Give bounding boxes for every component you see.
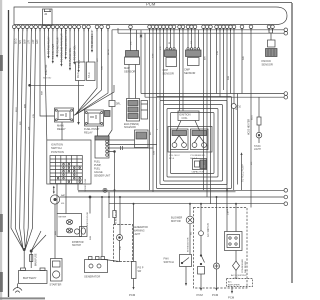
svg-text:PCM: PCM <box>197 293 204 297</box>
svg-text:SENSOR: SENSOR <box>184 71 195 75</box>
right page border <box>291 3 293 283</box>
condenser fan relay K3 <box>225 190 243 250</box>
wire color labels right <box>153 40 254 215</box>
svg-text:L/W: L/W <box>217 50 219 55</box>
svg-text:CONDENSER: CONDENSER <box>242 259 244 273</box>
ignition coil label box <box>177 111 200 131</box>
wire key to starter <box>54 204 56 258</box>
wire pin220 drop <box>219 28 221 97</box>
svg-text:SENDER UNIT: SENDER UNIT <box>94 175 111 178</box>
wire pin251 drop <box>250 28 252 208</box>
wire pins to DLC <box>84 28 89 62</box>
generator G1 <box>84 257 108 279</box>
EGR solenoid stack <box>124 99 140 130</box>
svg-text:B/LG: B/LG <box>16 107 18 112</box>
svg-text:DRL: DRL <box>116 104 121 106</box>
svg-text:SWITCH: SWITCH <box>72 245 81 247</box>
wire y148 with capacitor marks <box>108 146 153 150</box>
node next-page circles lower <box>284 189 288 206</box>
svg-text:SIG O/D: SIG O/D <box>43 78 52 80</box>
svg-text:P/S P: P/S P <box>138 268 144 270</box>
wire DRL down to fuel connector <box>108 107 112 137</box>
svg-text:BLOWER: BLOWER <box>171 216 182 220</box>
svg-text:LIGHT: LIGHT <box>134 234 141 236</box>
svg-text:MONITOR: MONITOR <box>46 64 48 75</box>
wire pin227 drop <box>226 28 228 190</box>
meter fuse wire <box>87 196 91 226</box>
splice mark x141 <box>140 30 142 37</box>
svg-text:Y/B: Y/B <box>120 246 122 250</box>
svg-text:A/C: A/C <box>228 280 232 283</box>
svg-text:METER FUSE: METER FUSE <box>87 211 89 226</box>
battery BT1 <box>19 268 48 284</box>
svg-text:L/G: L/G <box>131 41 133 45</box>
svg-text:PCM: PCM <box>228 296 235 300</box>
wire y140 to boost sensor <box>108 139 134 141</box>
wire pin223 drop <box>223 28 225 90</box>
wire pin153 long drop <box>152 28 154 192</box>
svg-text:STARTER: STARTER <box>50 283 62 287</box>
svg-text:TO COOLING FAN RELAY: TO COOLING FAN RELAY <box>61 32 64 62</box>
svg-text:W/ RESISTOR: W/ RESISTOR <box>187 237 189 252</box>
svg-text:SWITCH: SWITCH <box>51 146 62 150</box>
wire bus y191.8 <box>78 191 236 193</box>
svg-text:TO DRL UNIT: TO DRL UNIT <box>52 43 55 59</box>
wire route nest 5 <box>171 113 215 174</box>
CMP sensor <box>184 48 201 75</box>
ignition switch table <box>50 156 82 184</box>
svg-text:GY/R: GY/R <box>207 144 209 150</box>
svg-text:IG KEY FUSE: IG KEY FUSE <box>116 210 118 224</box>
svg-text:KNOCK: KNOCK <box>262 59 272 63</box>
wire pin149 long drop <box>149 28 151 190</box>
svg-text:SENSOR: SENSOR <box>262 63 273 67</box>
fan switch S1 <box>164 255 192 267</box>
svg-text:INHIBITOR: INHIBITOR <box>72 242 84 244</box>
wire pin41 to main relay <box>40 28 55 116</box>
svg-text:B/R: B/R <box>205 56 207 60</box>
splice circle bus y190 <box>103 188 107 192</box>
svg-text:BR/W: BR/W <box>108 48 110 55</box>
wires MAP to EGR stack <box>129 65 136 99</box>
svg-text:TO MIL: TO MIL <box>78 59 81 68</box>
svg-text:B/W: B/W <box>23 39 26 44</box>
ignition coil T1 <box>168 127 212 153</box>
wire fan into main relay <box>74 28 115 115</box>
svg-text:TO CRUISE UNIT: TO CRUISE UNIT <box>92 29 94 48</box>
wire splice fan right <box>31 231 46 251</box>
svg-text:TO PURGE SOL: TO PURGE SOL <box>69 47 72 66</box>
svg-text:B/R: B/R <box>19 40 22 44</box>
top page border <box>28 2 292 4</box>
svg-text:SW: SW <box>138 271 143 273</box>
wire bus y203.7 <box>109 203 284 205</box>
pin wire stubs <box>14 28 272 31</box>
svg-text:L: L <box>157 128 159 130</box>
svg-text:CAPACITOR: CAPACITOR <box>192 171 205 174</box>
wire pin234 drop with bubble <box>231 28 241 190</box>
svg-text:L/W: L/W <box>32 39 35 44</box>
svg-text:ONLY: ONLY <box>233 278 239 280</box>
svg-text:B/R: B/R <box>20 121 22 125</box>
ground battery <box>13 284 22 293</box>
svg-text:PCM: PCM <box>146 2 156 7</box>
PCM connector J2 <box>43 9 53 26</box>
svg-text:POSITION: POSITION <box>51 150 64 154</box>
svg-text:HO2S HEATER: HO2S HEATER <box>248 119 251 135</box>
wire to fuel pump <box>240 152 244 190</box>
wire pin242 drop <box>241 28 243 94</box>
EGR boost sensor <box>135 130 149 148</box>
wire x109 vertical <box>108 192 110 218</box>
svg-text:EGR (PRESS): EGR (PRESS) <box>124 124 139 126</box>
CKP sensor <box>163 48 177 76</box>
wire bus y33.2 <box>118 28 284 33</box>
wire pins to CMP sensor <box>188 28 199 48</box>
PSP switch <box>129 204 144 297</box>
svg-text:METER: METER <box>59 217 67 219</box>
svg-text:B/LG: B/LG <box>204 160 206 165</box>
starter M1 <box>50 259 63 287</box>
svg-text:W/B: W/B <box>90 235 92 240</box>
svg-text:TO TNS RELAY: TO TNS RELAY <box>48 36 51 54</box>
svg-text:FAN RELAY: FAN RELAY <box>244 261 247 273</box>
svg-text:B/LG: B/LG <box>252 115 254 120</box>
svg-text:RELAY: RELAY <box>84 131 93 135</box>
MAP sensor <box>124 51 140 74</box>
blower motor M2 <box>171 204 194 224</box>
wire y151.5 down to bus <box>108 151 115 191</box>
junction dots on buses <box>101 189 237 204</box>
wire drop x237 <box>237 94 239 185</box>
svg-text:G/Y: G/Y <box>97 58 99 62</box>
svg-text:MOTOR: MOTOR <box>171 219 181 223</box>
svg-text:SWITCH: SWITCH <box>164 260 174 264</box>
wire pin210 drop <box>210 28 212 204</box>
svg-text:TO CONDENSER FAN: TO CONDENSER FAN <box>65 30 68 55</box>
scan edge artifact bottom <box>0 297 45 299</box>
scan edge artifact left <box>0 0 3 300</box>
wire bus y97.2 <box>145 33 284 97</box>
wire blower to fan switch <box>187 224 190 255</box>
capacitor C1 <box>192 159 207 174</box>
svg-text:TO FUEL PUMP: TO FUEL PUMP <box>242 164 245 182</box>
wire color labels bundle <box>15 38 40 44</box>
wire bus y29.8 <box>112 30 284 101</box>
wire bus y197 <box>60 196 284 198</box>
node next-page circles top <box>284 28 288 35</box>
svg-text:GY: GY <box>191 40 193 44</box>
arrow PCM right <box>228 287 235 300</box>
svg-text:COIL: COIL <box>182 116 189 120</box>
svg-text:PCM: PCM <box>129 293 136 297</box>
svg-text:CYL. NO.2: CYL. NO.2 <box>169 155 180 157</box>
AC system dashed box <box>194 208 248 289</box>
fuel gauge sender text <box>94 161 111 178</box>
DRL box <box>109 101 121 107</box>
svg-text:L/R: L/R <box>251 161 253 165</box>
generator warning light box <box>114 225 133 262</box>
svg-text:W/G: W/G <box>236 105 238 110</box>
wire pin207 drop <box>206 28 208 197</box>
svg-text:BAT: BAT <box>61 194 66 197</box>
svg-text:ST/AC: ST/AC <box>254 145 261 148</box>
inhibitor switch <box>72 227 87 248</box>
wire bus y190.3 <box>78 189 284 191</box>
svg-text:L/R: L/R <box>29 126 31 130</box>
left page border <box>8 10 10 297</box>
wire main relay to ignition switch <box>61 122 63 140</box>
svg-text:SENSOR: SENSOR <box>163 72 174 76</box>
svg-text:LIGHT: LIGHT <box>254 149 261 151</box>
wire route nest 3 <box>164 105 223 182</box>
svg-text:L/G: L/G <box>160 46 162 50</box>
connector DLC2 <box>87 62 96 81</box>
svg-text:IGNITION: IGNITION <box>179 113 191 117</box>
svg-text:GENERATOR: GENERATOR <box>134 226 149 229</box>
svg-text:RELAY: RELAY <box>57 127 66 131</box>
main fuse <box>30 253 38 266</box>
junction splice second <box>30 250 32 252</box>
wire fan switch to ground arrow <box>185 267 187 287</box>
diode D1 <box>233 251 248 279</box>
wire pin216 drop <box>216 28 218 94</box>
svg-text:AMPLIFIER: AMPLIFIER <box>228 283 240 286</box>
wire pin203 drop <box>203 28 205 190</box>
wire bus y93.5 <box>141 36 284 94</box>
svg-text:MAIN FUSE: MAIN FUSE <box>35 253 38 266</box>
svg-text:FAN: FAN <box>164 257 169 261</box>
svg-text:B/LG: B/LG <box>15 38 18 44</box>
key cylinder <box>50 186 65 205</box>
connector DLC <box>76 62 86 81</box>
wire color labels scattered <box>16 41 253 250</box>
EGR vent solenoid <box>141 101 148 120</box>
wire y144.5 to coil nest <box>108 144 157 146</box>
svg-text:TO A/C RELAY: TO A/C RELAY <box>56 36 59 53</box>
PCM box U1 <box>14 7 287 25</box>
svg-text:L/B: L/B <box>227 208 229 212</box>
PCM pin circles <box>12 25 274 29</box>
cylinder labels <box>169 155 206 160</box>
wire table to meter <box>57 184 78 214</box>
wire route nest 1 <box>157 97 232 189</box>
svg-text:G/O: G/O <box>36 39 39 44</box>
wire pins to ignition coil <box>180 28 184 111</box>
svg-text:A/C EQUIPPED: A/C EQUIPPED <box>231 274 247 277</box>
wire pin45 to ignition switch box <box>44 28 47 140</box>
svg-text:DLC: DLC <box>76 72 80 78</box>
wire pins to CKP sensor <box>167 28 174 48</box>
IG KEY fuse branch <box>113 190 118 224</box>
svg-text:CMP: CMP <box>184 68 190 72</box>
wire pins to knock sensor <box>269 28 273 40</box>
svg-text:MAIN: MAIN <box>57 124 64 128</box>
nest feeds <box>157 28 164 105</box>
svg-text:W/B: W/B <box>228 75 230 80</box>
svg-text:J2: J2 <box>44 12 48 16</box>
AC switch branch <box>197 204 205 297</box>
wire splices to battery <box>24 250 31 269</box>
svg-text:B/Y: B/Y <box>150 131 152 135</box>
meter cluster <box>57 214 86 237</box>
AC thermo branch <box>212 197 220 297</box>
ground arrow below DLC <box>77 81 80 126</box>
svg-text:IGNITION: IGNITION <box>51 143 63 147</box>
wire pins to MAP sensor <box>131 28 137 51</box>
svg-text:G/W: G/W <box>154 150 156 155</box>
svg-text:GENERATOR: GENERATOR <box>84 275 100 279</box>
svg-text:IG1: IG1 <box>61 203 65 205</box>
svg-text:R/B: R/B <box>243 56 245 60</box>
ignition switch box <box>47 140 91 184</box>
node next-page circles middle <box>284 92 288 99</box>
svg-text:ROOM FUSE: ROOM FUSE <box>85 178 87 192</box>
svg-text:B/L: B/L <box>191 231 193 235</box>
wire bus to generator <box>101 197 103 257</box>
relay side connector <box>105 111 111 117</box>
svg-text:A/C SWITCH: A/C SWITCH <box>207 223 210 237</box>
wire route nest 2 <box>160 101 227 185</box>
generator warning light label <box>134 226 149 236</box>
svg-text:G/B: G/B <box>102 66 104 70</box>
svg-text:NO.4: NO.4 <box>169 158 175 160</box>
junction splice main <box>23 248 25 250</box>
knock sensor <box>262 40 278 67</box>
svg-text:ST-G: ST-G <box>88 72 91 78</box>
svg-text:L/R: L/R <box>28 40 31 44</box>
wire bundle left to battery splice <box>11 28 36 249</box>
fuel pump sender connector <box>95 126 109 158</box>
AC amplifier dashed box <box>227 279 253 287</box>
HO2S heater branch <box>248 97 262 151</box>
svg-text:BATTERY: BATTERY <box>23 276 37 280</box>
svg-text:SOLENOID: SOLENOID <box>124 127 136 129</box>
svg-text:WARNING: WARNING <box>134 230 145 233</box>
wire route nest 4 <box>167 109 218 178</box>
svg-text:SENSOR: SENSOR <box>124 70 135 74</box>
svg-text:W/R: W/R <box>42 90 44 95</box>
svg-text:TO EGR SOL: TO EGR SOL <box>74 45 77 60</box>
wire pin230 drop <box>230 28 232 94</box>
svg-text:L/B: L/B <box>228 211 230 215</box>
main relay K1 <box>55 108 74 131</box>
svg-text:PCM: PCM <box>212 293 219 297</box>
wire stubs to other circuits <box>47 28 80 73</box>
wire stub TO CRUISE <box>91 29 94 53</box>
wire bus y85 <box>30 84 84 86</box>
fuel pump relay K2 <box>84 110 104 135</box>
AC equipped label <box>231 274 247 280</box>
generator warning lamp <box>105 197 123 262</box>
